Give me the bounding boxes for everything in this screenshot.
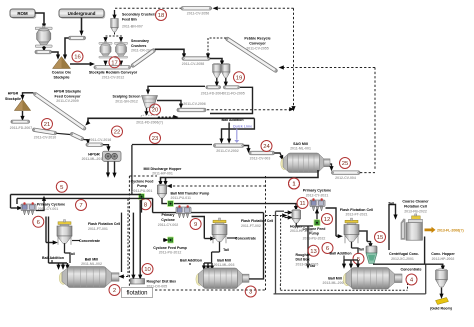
svg-text:Flash Flotation Cell: Flash Flotation Cell: [241, 219, 273, 223]
svg-text:2011-CV-2002: 2011-CV-2002: [216, 149, 238, 153]
svg-text:HPGR Stockpile: HPGR Stockpile: [54, 90, 81, 94]
svg-text:2011-CV-2010: 2011-CV-2010: [34, 136, 56, 140]
svg-text:Crushers: Crushers: [131, 44, 146, 48]
svg-text:2011-SN-2012: 2011-SN-2012: [115, 100, 138, 104]
svg-text:Pebble Recycle: Pebble Recycle: [244, 37, 270, 41]
svg-text:SAG Mill: SAG Mill: [293, 142, 308, 146]
svg-text:20: 20: [152, 108, 159, 114]
svg-text:Coarse Cleaner: Coarse Cleaner: [402, 200, 429, 204]
svg-text:Cyclone Feed: Cyclone Feed: [303, 227, 326, 231]
svg-text:2011-CV-2016: 2011-CV-2016: [89, 138, 111, 142]
svg-text:Conc. Hopper: Conc. Hopper: [431, 252, 455, 256]
svg-text:2011-ML-001: 2011-ML-001: [290, 147, 311, 151]
svg-text:Flotation Cell: Flotation Cell: [404, 205, 427, 209]
svg-text:Dist Box: Dist Box: [296, 258, 310, 262]
svg-text:2013-PU-2022: 2013-PU-2022: [303, 236, 326, 240]
svg-text:Pump: Pump: [137, 184, 147, 188]
svg-text:Secondary: Secondary: [131, 39, 149, 43]
svg-text:Concentrate: Concentrate: [401, 267, 422, 271]
svg-text:Rougher: Rougher: [296, 253, 311, 257]
svg-text:HPGR: HPGR: [88, 152, 100, 157]
svg-text:2012-FT-2021: 2012-FT-2021: [346, 213, 368, 217]
svg-text:22: 22: [114, 130, 121, 136]
svg-text:11: 11: [299, 201, 305, 207]
svg-text:Conveyor: Conveyor: [249, 42, 266, 46]
svg-text:15: 15: [377, 235, 384, 241]
svg-text:Cyclone: Cyclone: [161, 218, 175, 222]
svg-text:2011-CV-2006: 2011-CV-2006: [183, 102, 205, 106]
svg-text:2011-FD-2004: 2011-FD-2004: [201, 91, 223, 95]
svg-text:2011-CY-002: 2011-CY-002: [158, 223, 178, 227]
svg-text:7: 7: [79, 203, 82, 209]
svg-text:2011-CV-2055: 2011-CV-2055: [246, 46, 268, 50]
svg-text:Cyclone Feed Pump: Cyclone Feed Pump: [153, 246, 186, 250]
svg-text:Ball Mill: Ball Mill: [85, 257, 99, 261]
svg-text:2012-CV-003: 2012-CV-003: [250, 156, 271, 160]
svg-text:Tail: Tail: [358, 247, 364, 251]
svg-text:Primary: Primary: [161, 213, 174, 217]
svg-text:Flash Flotation Cell: Flash Flotation Cell: [340, 208, 373, 212]
svg-text:2012-XC-2001: 2012-XC-2001: [391, 257, 414, 261]
svg-text:Tail: Tail: [223, 248, 229, 252]
svg-text:2012-CV-004: 2012-CV-004: [335, 176, 356, 180]
svg-text:Primary Cyclone: Primary Cyclone: [303, 189, 331, 193]
svg-text:2011-PU-011: 2011-PU-011: [171, 196, 191, 200]
svg-text:2012-CY-2021: 2012-CY-2021: [306, 193, 329, 197]
svg-text:2011-CV-2058: 2011-CV-2058: [182, 62, 204, 66]
svg-text:17: 17: [111, 60, 118, 66]
svg-text:Ball Addition: Ball Addition: [329, 251, 351, 255]
svg-text:2013-DX-2005: 2013-DX-2005: [296, 263, 319, 267]
svg-text:Stockpile: Stockpile: [54, 75, 70, 79]
svg-text:2011-BN-007: 2011-BN-007: [122, 25, 143, 29]
svg-text:2011-PU-2012: 2011-PU-2012: [159, 251, 182, 255]
svg-text:Scalping Screen: Scalping Screen: [113, 95, 141, 99]
svg-text:Ball Mill Transfer Pump: Ball Mill Transfer Pump: [171, 191, 210, 195]
svg-text:Centrifugal Conc.: Centrifugal Conc.: [389, 252, 419, 256]
svg-text:2011-CV-2012: 2011-CV-2012: [102, 76, 124, 80]
svg-text:Feed Bin: Feed Bin: [122, 17, 137, 21]
svg-text:2: 2: [113, 288, 116, 294]
svg-text:Coarse Ore: Coarse Ore: [52, 71, 71, 75]
svg-text:16: 16: [74, 55, 81, 61]
svg-text:Pump: Pump: [309, 232, 319, 236]
svg-text:Stockpile Reclaim Conveyor: Stockpile Reclaim Conveyor: [89, 71, 138, 75]
svg-text:Ball Mill: Ball Mill: [217, 258, 231, 262]
svg-text:Ball Addition: Ball Addition: [221, 118, 243, 122]
svg-text:Primary Cyclone: Primary Cyclone: [37, 202, 65, 206]
svg-text:2011-FT-002: 2011-FT-002: [241, 224, 261, 228]
svg-text:2011-CV-2009: 2011-CV-2009: [56, 99, 78, 103]
svg-text:(Gold Room): (Gold Room): [430, 306, 453, 310]
svg-text:HPGR: HPGR: [8, 92, 19, 96]
svg-text:2011-FD-2005: 2011-FD-2005: [222, 91, 244, 95]
svg-text:23: 23: [152, 136, 159, 142]
svg-text:2012-HP-2002: 2012-HP-2002: [432, 257, 455, 261]
svg-text:2011-ML-201: 2011-ML-201: [82, 157, 103, 161]
svg-text:1: 1: [292, 182, 295, 188]
svg-text:21: 21: [44, 122, 51, 128]
svg-text:Ball Mill: Ball Mill: [328, 276, 342, 280]
svg-text:Ball Addition: Ball Addition: [180, 259, 202, 263]
svg-text:Rougher Dist Box: Rougher Dist Box: [147, 280, 177, 284]
svg-text:2011-FT-001: 2011-FT-001: [88, 227, 108, 231]
svg-text:2011-CV-2056: 2011-CV-2056: [187, 12, 209, 16]
svg-text:13: 13: [310, 249, 317, 255]
svg-text:24: 24: [263, 144, 270, 150]
svg-text:2011-PU-001: 2011-PU-001: [132, 189, 153, 193]
svg-text:Ball Addition: Ball Addition: [42, 256, 64, 260]
svg-text:2011-HP-001: 2011-HP-001: [152, 172, 173, 176]
svg-text:Mill Discharge Hopper: Mill Discharge Hopper: [144, 167, 183, 171]
svg-text:10: 10: [144, 267, 151, 273]
svg-text:2013-FL-2006(?): 2013-FL-2006(?): [437, 229, 464, 233]
svg-text:2011-ML-002: 2011-ML-002: [81, 262, 102, 266]
svg-text:Underground: Underground: [68, 11, 96, 16]
svg-text:2013-FB-2022: 2013-FB-2022: [404, 209, 427, 213]
svg-text:25: 25: [342, 161, 349, 167]
svg-text:Concentrate: Concentrate: [235, 236, 256, 240]
svg-text:9: 9: [194, 222, 197, 228]
svg-text:2011-FD-2006(?): 2011-FD-2006(?): [136, 120, 163, 124]
svg-text:flotation: flotation: [126, 291, 147, 297]
svg-text:Concentrate: Concentrate: [79, 239, 100, 243]
svg-text:Feed Conveyor: Feed Conveyor: [55, 94, 82, 98]
svg-text:2013-ML-2004: 2013-ML-2004: [323, 281, 346, 285]
svg-text:Secondary Crushers: Secondary Crushers: [122, 13, 156, 17]
svg-text:ROM: ROM: [17, 11, 28, 16]
svg-text:Tail: Tail: [388, 201, 394, 205]
svg-text:2011-FD-2007: 2011-FD-2007: [10, 126, 32, 130]
svg-text:2011-ML-003: 2011-ML-003: [214, 263, 235, 267]
svg-text:18: 18: [158, 13, 165, 19]
svg-text:Quick Lime: Quick Lime: [233, 124, 252, 128]
svg-text:Cyclone Feed: Cyclone Feed: [131, 179, 154, 183]
svg-text:12: 12: [324, 217, 331, 223]
svg-text:Flash Flotation Cell: Flash Flotation Cell: [88, 222, 120, 226]
svg-text:Stockpile: Stockpile: [5, 97, 21, 101]
svg-text:19: 19: [236, 75, 243, 81]
